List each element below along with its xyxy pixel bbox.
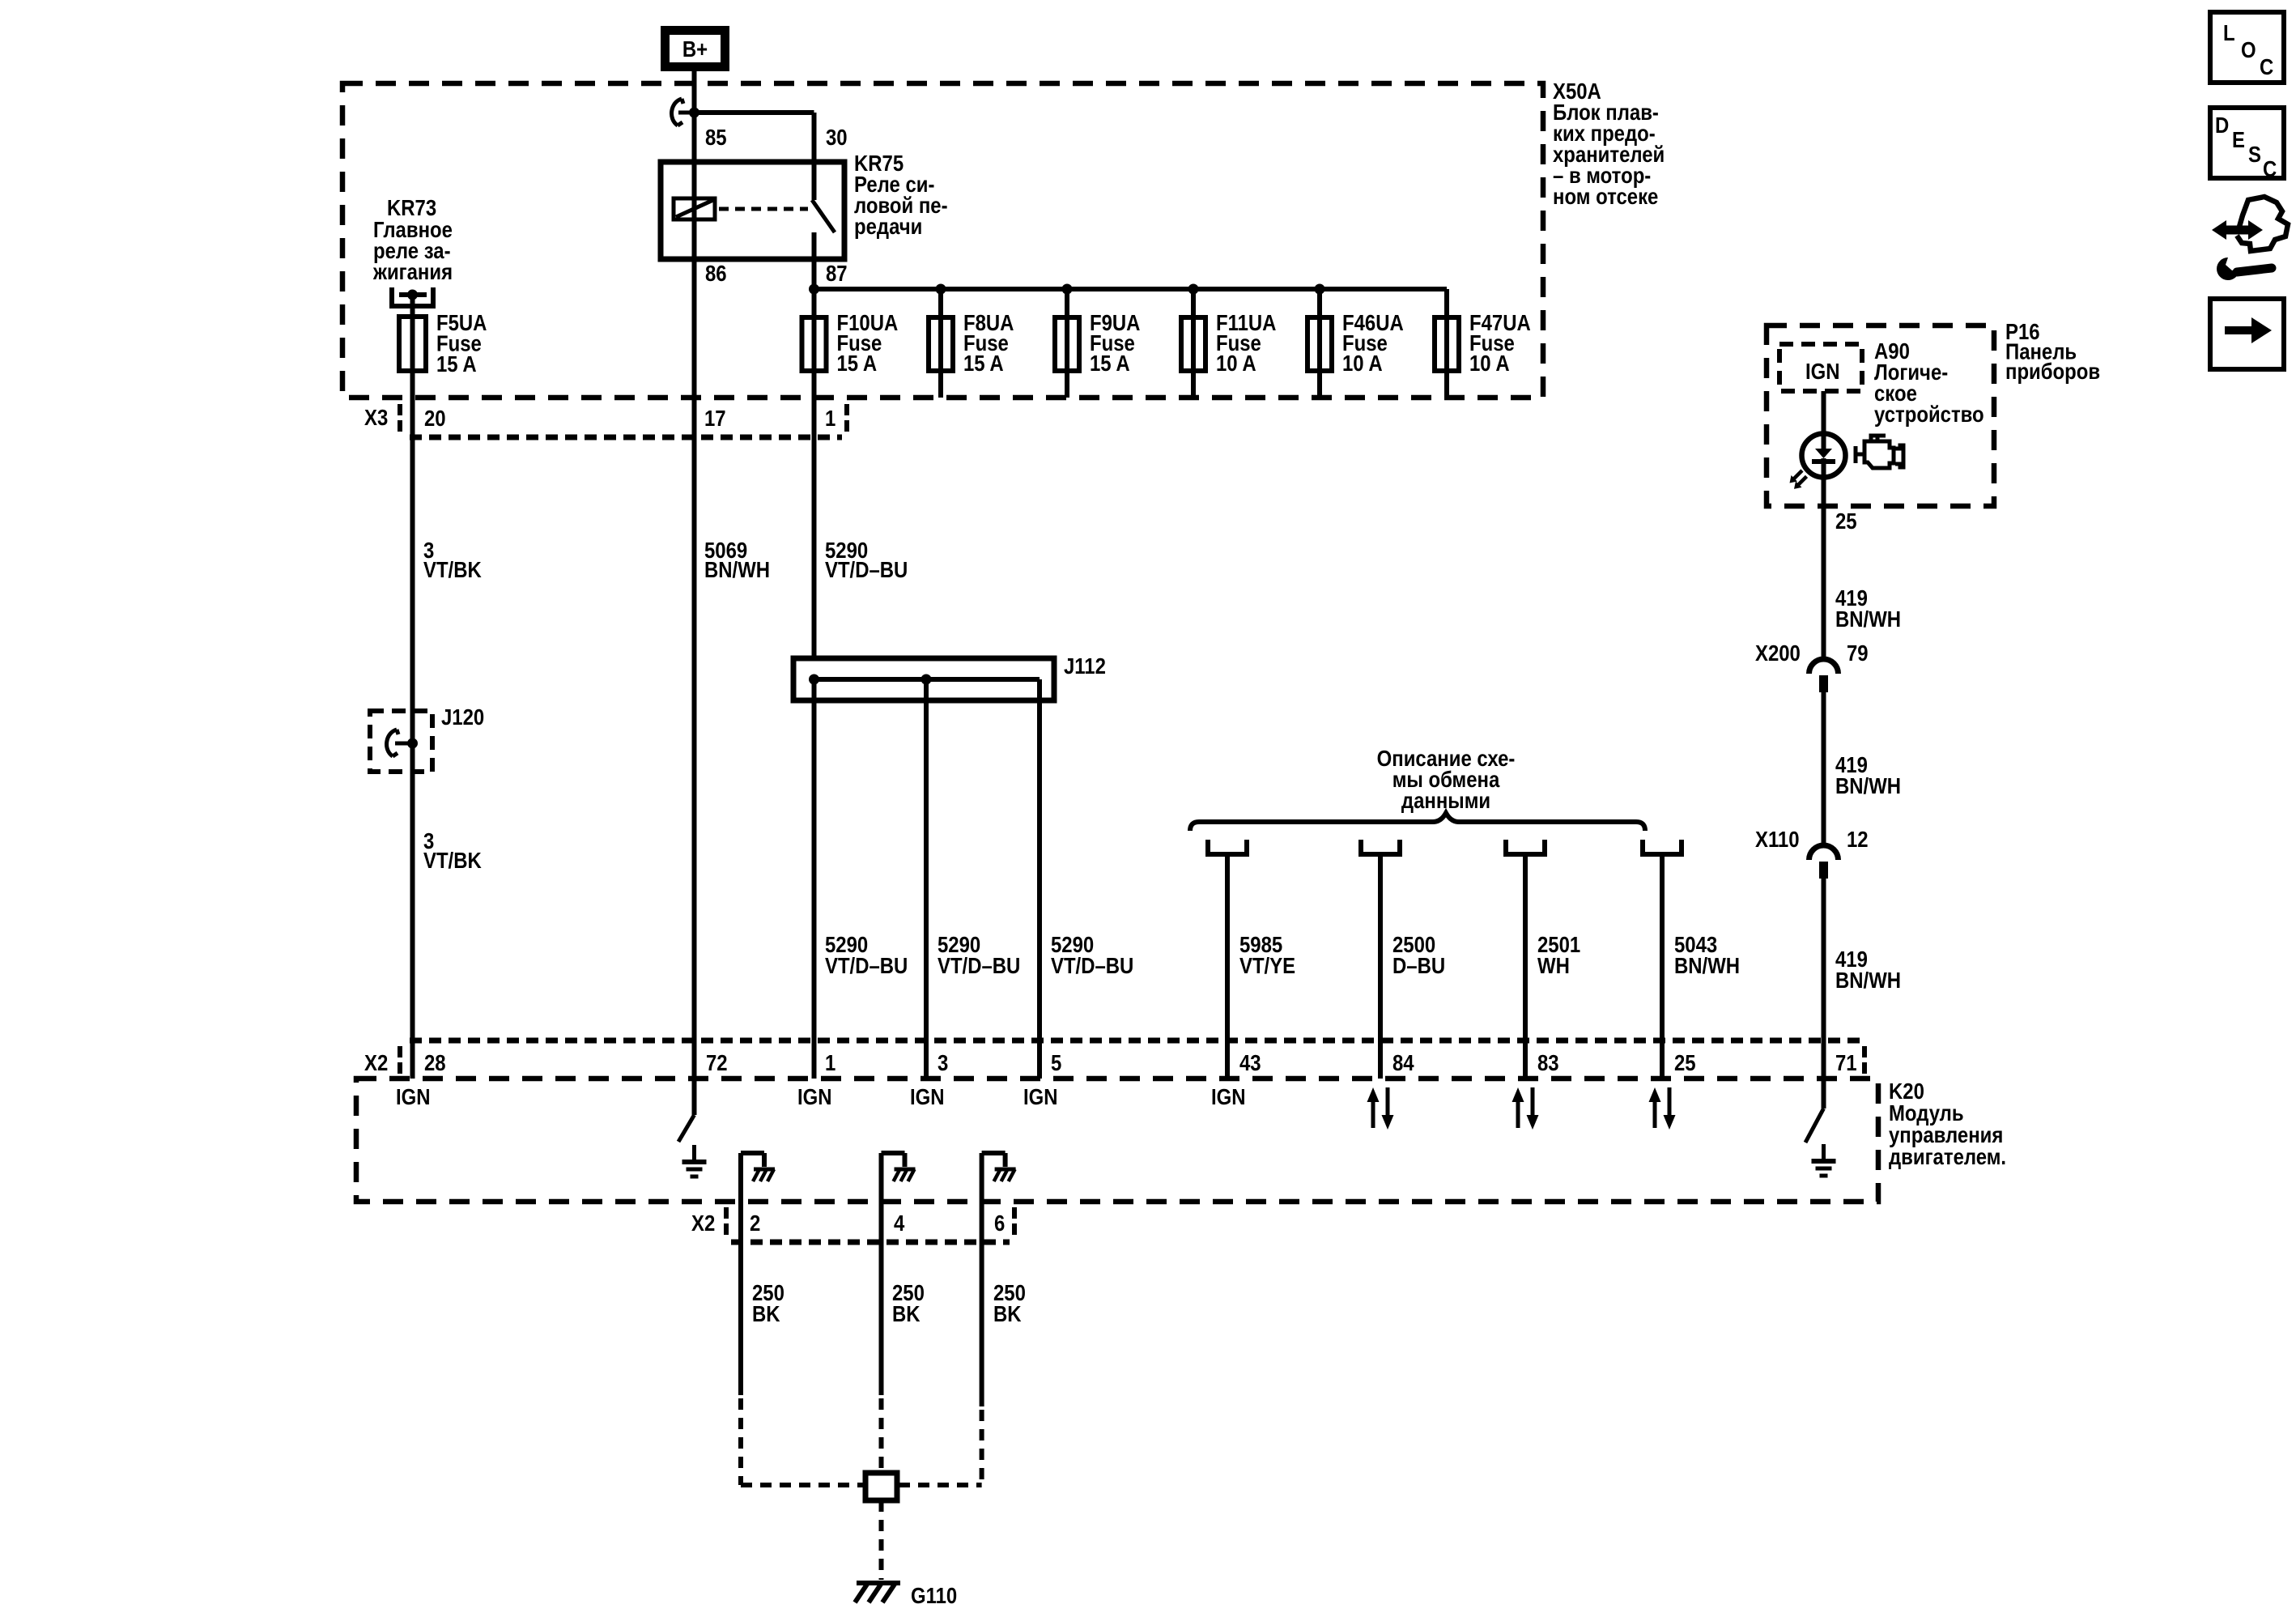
svg-text:X110: X110 (1755, 828, 1800, 853)
svg-text:E: E (2232, 129, 2245, 153)
svg-text:VT/BK: VT/BK (423, 849, 482, 874)
svg-text:X2: X2 (691, 1212, 715, 1236)
svg-text:15 A: 15 A (837, 352, 878, 377)
svg-text:IGN: IGN (396, 1086, 431, 1110)
svg-text:87: 87 (826, 262, 848, 287)
svg-text:BN/WH: BN/WH (1835, 969, 1901, 994)
svg-text:устройство: устройство (1874, 403, 1984, 428)
svg-text:X3: X3 (364, 406, 388, 431)
svg-text:VT/D–BU: VT/D–BU (938, 955, 1020, 979)
svg-text:6: 6 (994, 1212, 1005, 1236)
svg-text:управления: управления (1889, 1124, 2003, 1148)
svg-text:BN/WH: BN/WH (704, 559, 770, 583)
svg-text:10 A: 10 A (1342, 352, 1383, 377)
svg-text:жигания: жигания (372, 261, 453, 285)
svg-text:15 A: 15 A (1090, 352, 1130, 377)
svg-text:X2: X2 (364, 1052, 388, 1076)
svg-text:VT/YE: VT/YE (1239, 955, 1295, 979)
svg-text:15 A: 15 A (436, 353, 477, 377)
svg-text:5: 5 (1051, 1052, 1061, 1076)
svg-text:85: 85 (705, 126, 727, 151)
svg-text:71: 71 (1835, 1052, 1857, 1076)
svg-text:IGN: IGN (1211, 1086, 1246, 1110)
svg-text:10 A: 10 A (1216, 352, 1256, 377)
svg-text:BK: BK (993, 1303, 1022, 1327)
svg-text:VT/BK: VT/BK (423, 559, 482, 583)
svg-text:IGN: IGN (1805, 360, 1840, 385)
svg-text:86: 86 (705, 262, 727, 287)
svg-text:1: 1 (825, 1052, 835, 1076)
svg-text:20: 20 (424, 407, 446, 432)
svg-text:43: 43 (1239, 1052, 1261, 1076)
svg-text:BN/WH: BN/WH (1674, 955, 1740, 979)
svg-text:25: 25 (1835, 510, 1857, 534)
svg-text:X200: X200 (1755, 642, 1801, 666)
svg-text:BK: BK (892, 1303, 921, 1327)
svg-text:приборов: приборов (2005, 360, 2100, 385)
svg-text:30: 30 (826, 126, 848, 151)
svg-text:S: S (2248, 143, 2261, 168)
svg-text:BN/WH: BN/WH (1835, 775, 1901, 799)
svg-text:L: L (2223, 22, 2235, 46)
svg-text:1: 1 (825, 407, 835, 432)
svg-text:BK: BK (752, 1303, 780, 1327)
svg-text:K20: K20 (1889, 1080, 1924, 1104)
svg-text:J120: J120 (441, 706, 484, 730)
svg-text:двигателем.: двигателем. (1889, 1146, 2006, 1170)
svg-text:VT/D–BU: VT/D–BU (825, 955, 908, 979)
svg-text:79: 79 (1847, 642, 1869, 666)
svg-text:17: 17 (704, 407, 726, 432)
svg-text:D–BU: D–BU (1392, 955, 1445, 979)
svg-text:25: 25 (1674, 1052, 1696, 1076)
svg-text:редачи: редачи (854, 215, 922, 240)
svg-text:15 A: 15 A (963, 352, 1004, 377)
svg-text:10 A: 10 A (1469, 352, 1510, 377)
svg-text:84: 84 (1392, 1052, 1414, 1076)
svg-text:C: C (2263, 158, 2277, 182)
svg-text:IGN: IGN (797, 1086, 832, 1110)
svg-text:KR73: KR73 (387, 197, 436, 221)
svg-text:3: 3 (938, 1052, 948, 1076)
svg-text:4: 4 (894, 1212, 905, 1236)
svg-text:C: C (2260, 56, 2273, 80)
svg-text:D: D (2215, 114, 2229, 138)
svg-text:2: 2 (750, 1212, 760, 1236)
svg-text:O: O (2241, 39, 2256, 63)
svg-text:28: 28 (424, 1052, 446, 1076)
svg-text:IGN: IGN (910, 1086, 945, 1110)
svg-text:Модуль: Модуль (1889, 1102, 1964, 1126)
svg-text:B+: B+ (682, 38, 708, 62)
svg-text:G110: G110 (911, 1585, 957, 1609)
svg-text:VT/D–BU: VT/D–BU (1051, 955, 1133, 979)
svg-text:VT/D–BU: VT/D–BU (825, 559, 908, 583)
svg-text:12: 12 (1847, 828, 1869, 853)
svg-text:BN/WH: BN/WH (1835, 608, 1901, 632)
svg-text:WH: WH (1537, 955, 1570, 979)
svg-text:IGN: IGN (1023, 1086, 1058, 1110)
svg-text:72: 72 (706, 1052, 728, 1076)
svg-text:ном отсеке: ном отсеке (1553, 185, 1658, 210)
svg-text:83: 83 (1537, 1052, 1559, 1076)
svg-text:J112: J112 (1064, 655, 1106, 679)
